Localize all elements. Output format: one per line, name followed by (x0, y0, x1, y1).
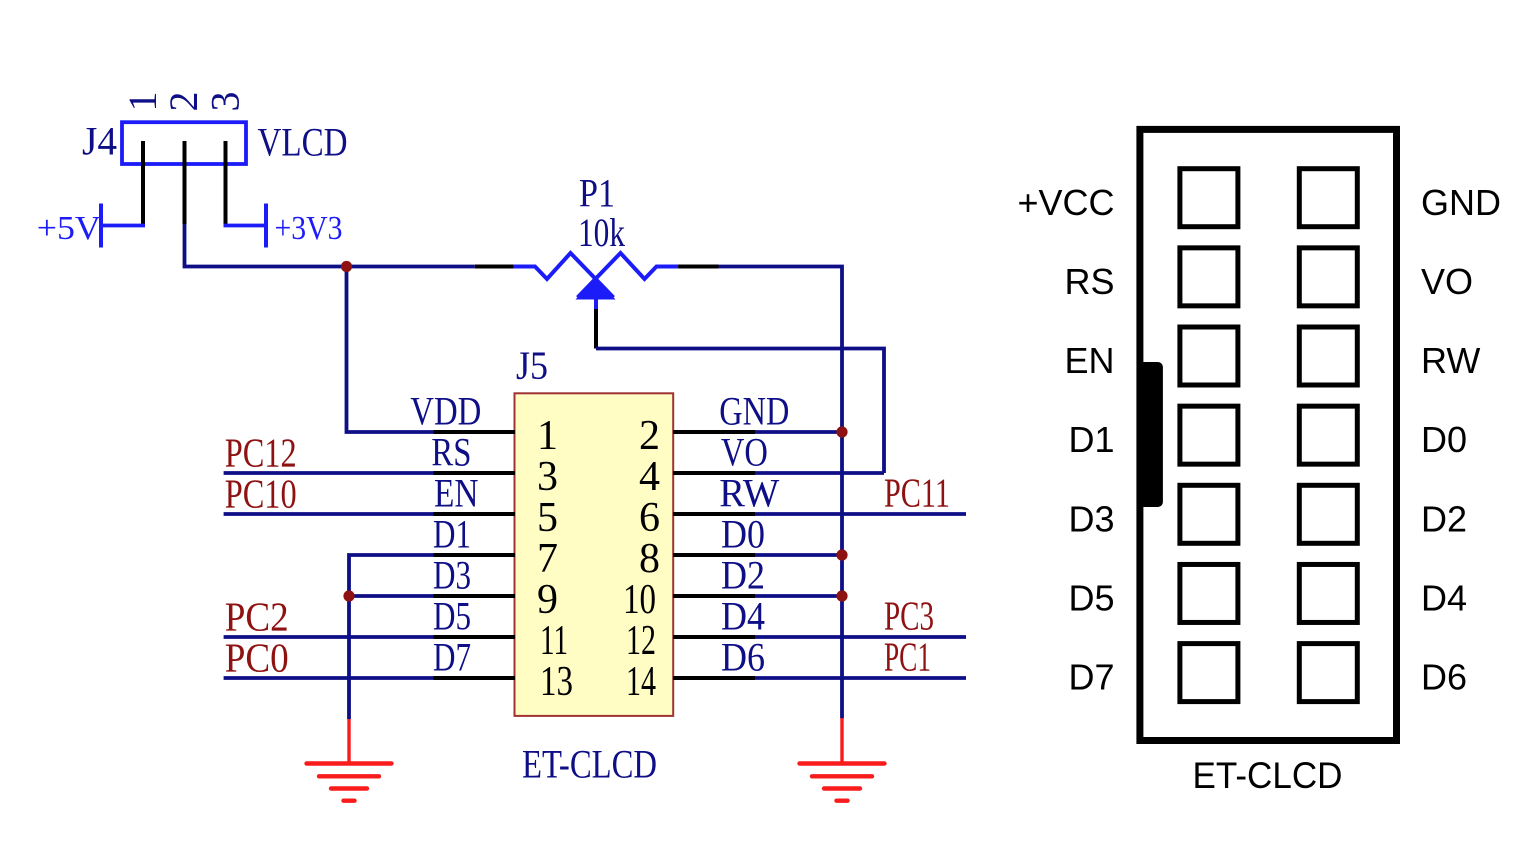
wire D0 row (755, 553, 842, 557)
potentiometer P1 zigzag right (578, 253, 679, 298)
svg-text:J4: J4 (82, 119, 117, 164)
junction GND bus top (836, 426, 847, 437)
connector J5 body (515, 393, 674, 716)
svg-text:PC1: PC1 (884, 634, 931, 680)
svg-text:D3: D3 (433, 553, 471, 598)
svg-text:PC10: PC10 (225, 471, 297, 517)
svg-text:14: 14 (626, 659, 656, 705)
J5 pin 10 stub (673, 594, 755, 598)
potentiometer P1 left pin (475, 265, 514, 269)
wire D6 row to PC1 (755, 676, 966, 680)
svg-text:PC12: PC12 (225, 430, 297, 476)
wire J4 pin 2 down to top rail (185, 224, 475, 267)
svg-text:PC2: PC2 (225, 594, 289, 640)
connector ET-CLCD outline (1140, 129, 1397, 740)
svg-text:+5V: +5V (37, 210, 101, 247)
J5 pin 6 stub (673, 512, 755, 516)
J5 pin 3 stub (434, 471, 516, 475)
wire D3 row (349, 594, 434, 598)
svg-text:D5: D5 (433, 594, 471, 639)
svg-text:D0: D0 (1421, 419, 1467, 460)
wire RS row PC12 (224, 471, 434, 475)
J5 pin 4 stub (673, 471, 755, 475)
junction D2 bus (836, 590, 847, 601)
svg-text:EN: EN (434, 471, 479, 516)
svg-text:7: 7 (537, 536, 558, 582)
SCHEMATIC-TEXT (37, 92, 950, 787)
wire GND row (755, 430, 842, 434)
svg-text:D1: D1 (433, 512, 471, 557)
potentiometer P1 wiper pin (594, 309, 598, 349)
svg-text:D5: D5 (1068, 578, 1114, 619)
svg-text:D2: D2 (721, 553, 765, 598)
svg-text:D1: D1 (1068, 419, 1114, 460)
svg-text:D0: D0 (721, 512, 765, 557)
junction D3 left bus (343, 590, 354, 601)
ground left stem (347, 719, 350, 763)
svg-text:RW: RW (719, 471, 779, 516)
J5 pin 8 stub (673, 553, 755, 557)
svg-text:VO: VO (721, 430, 768, 475)
svg-text:10: 10 (623, 577, 656, 623)
wire VO row (755, 471, 884, 475)
J5 pin 11 stub (434, 635, 516, 639)
J5 pin 5 stub (434, 512, 516, 516)
potentiometer P1 zigzag left (513, 253, 613, 298)
power +5V bar (99, 204, 103, 248)
svg-text:1: 1 (120, 92, 165, 112)
svg-text:2: 2 (161, 92, 206, 112)
svg-text:RS: RS (1064, 261, 1114, 302)
PINOUT-RIGHT (1017, 129, 1501, 796)
svg-text:11: 11 (540, 618, 568, 664)
potentiometer P1 wiper stub blue (594, 296, 598, 309)
J4 pin 3 stub (224, 141, 228, 226)
svg-text:PC11: PC11 (884, 470, 950, 516)
wire D4 row to PC3 (755, 635, 966, 639)
svg-text:RS: RS (431, 430, 471, 475)
svg-text:10k: 10k (578, 210, 625, 255)
svg-text:2: 2 (639, 413, 660, 459)
svg-text:VLCD: VLCD (258, 120, 348, 165)
J5 pin 9 stub (434, 594, 516, 598)
J4 pin 2 stub (183, 141, 187, 224)
svg-text:D7: D7 (1068, 657, 1114, 698)
junction node A (341, 261, 352, 272)
ground right bars (800, 764, 885, 801)
J5 pin 12 stub (673, 635, 755, 639)
svg-text:D3: D3 (1068, 498, 1114, 539)
ground left bars (307, 764, 392, 801)
wire top rail right to ground bus (719, 267, 843, 719)
svg-text:6: 6 (639, 495, 660, 541)
svg-text:GND: GND (1421, 182, 1501, 223)
SCHEMATIC-LEFT (101, 122, 966, 801)
svg-text:D2: D2 (1421, 498, 1467, 539)
svg-text:VO: VO (1421, 261, 1473, 302)
pinout labels right (1421, 182, 1501, 698)
svg-text:+VCC: +VCC (1017, 182, 1114, 223)
wire D5 row PC2 (224, 635, 434, 639)
svg-text:ET-CLCD: ET-CLCD (1193, 755, 1343, 796)
svg-text:4: 4 (639, 454, 660, 500)
pad squares column 2 (1299, 169, 1357, 702)
svg-text:D6: D6 (721, 635, 765, 680)
svg-text:3: 3 (537, 454, 558, 500)
svg-text:PC0: PC0 (225, 635, 289, 681)
ground right stem (840, 718, 843, 763)
svg-text:D4: D4 (1421, 578, 1467, 619)
svg-text:EN: EN (1064, 340, 1114, 381)
potentiometer P1 right pin (678, 265, 718, 269)
svg-text:J5: J5 (516, 343, 548, 388)
svg-text:1: 1 (537, 413, 558, 459)
connector J4 body (122, 122, 246, 164)
svg-text:+3V3: +3V3 (275, 210, 343, 247)
pinout labels left (1017, 182, 1114, 698)
J5 pin 14 stub (673, 676, 755, 680)
svg-text:3: 3 (203, 92, 248, 112)
svg-text:5: 5 (537, 495, 558, 541)
wire D7 row PC0 (224, 676, 434, 680)
J4 pin 1 stub (141, 141, 145, 226)
wire node A vertical to VDD (347, 267, 434, 433)
svg-text:P1: P1 (579, 171, 615, 216)
svg-text:RW: RW (1421, 340, 1480, 381)
svg-text:12: 12 (626, 618, 656, 664)
power +3V3 bar (264, 204, 268, 248)
svg-text:PC3: PC3 (884, 593, 934, 639)
connector key notch (1137, 362, 1163, 507)
svg-text:9: 9 (537, 577, 558, 623)
svg-text:13: 13 (540, 659, 573, 705)
svg-text:D4: D4 (721, 594, 765, 639)
J5 pin 2 stub (673, 430, 755, 434)
svg-text:GND: GND (719, 389, 789, 434)
wire D1 row and left bus (349, 555, 434, 719)
J5 pin 13 stub (434, 676, 516, 680)
svg-text:8: 8 (639, 536, 660, 582)
wire RW row to PC11 (755, 512, 966, 516)
svg-text:D7: D7 (433, 635, 471, 680)
J5 pad numbers right column (623, 413, 660, 705)
pad squares column 1 (1180, 169, 1238, 702)
wire J4 pin 3 to +3V3 (224, 224, 267, 228)
junction D0 bus (836, 549, 847, 560)
wire EN row PC10 (224, 512, 434, 516)
svg-text:D6: D6 (1421, 657, 1467, 698)
J5 pad numbers left column (537, 413, 573, 705)
wire D2 row (755, 594, 842, 598)
svg-text:ET-CLCD: ET-CLCD (522, 742, 657, 787)
wire +5V to J4 pin 1 (101, 224, 145, 228)
svg-text:VDD: VDD (410, 389, 481, 434)
J5 pin 1 stub (434, 430, 516, 434)
wire wiper to VO column (596, 349, 884, 474)
J5 pin 7 stub (434, 553, 516, 557)
potentiometer P1 wiper arrow (576, 277, 616, 300)
